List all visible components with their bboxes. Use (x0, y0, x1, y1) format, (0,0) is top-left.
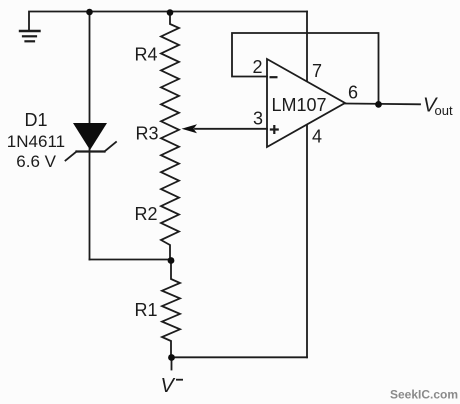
svg-text:R1: R1 (135, 300, 158, 320)
svg-text:R4: R4 (135, 45, 158, 65)
svg-text:out: out (435, 103, 453, 118)
svg-text:V: V (161, 375, 176, 397)
svg-text:6.6 V: 6.6 V (16, 152, 56, 171)
svg-text:1N4611: 1N4611 (7, 132, 65, 151)
svg-text:SeekIC.com: SeekIC.com (390, 388, 458, 402)
svg-text:3: 3 (253, 109, 263, 129)
svg-text:R3: R3 (136, 123, 159, 143)
svg-text:6: 6 (348, 83, 358, 103)
svg-text:4: 4 (312, 127, 322, 147)
svg-text:D1: D1 (25, 110, 48, 130)
svg-text:7: 7 (312, 61, 322, 81)
svg-text:R2: R2 (135, 204, 158, 224)
svg-text:LM107: LM107 (272, 95, 327, 115)
svg-text:2: 2 (253, 57, 263, 77)
